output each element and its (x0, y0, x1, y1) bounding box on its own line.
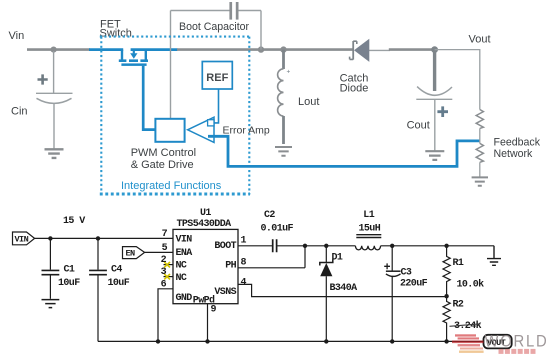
svg-text:5: 5 (162, 243, 168, 254)
svg-text:10uF: 10uF (58, 278, 80, 289)
wire: divider bottom (479, 162, 481, 176)
svg-text:C4: C4 (111, 265, 122, 276)
watermark stripe 5 (460, 348, 483, 350)
node: C4 junction (96, 236, 100, 240)
capacitor Cin lead bottom (53, 104, 55, 149)
wire: input rail (35, 237, 173, 239)
resistor feedback lower (476, 143, 483, 162)
wire: down to PH pin (304, 246, 306, 268)
svg-text:WORLD: WORLD (485, 331, 549, 350)
capacitor Cout lead (thick) (433, 50, 436, 91)
svg-text:10.0k: 10.0k (457, 279, 485, 291)
capacitor C4 lead top (97, 238, 99, 269)
node: Cout/Vout junction dot (431, 46, 438, 53)
svg-text:C2: C2 (264, 210, 275, 221)
node: pin6 rail junction (156, 339, 160, 343)
wire: Vin input (gray) (27, 48, 90, 51)
capacitor Cout plus sign (437, 106, 448, 117)
svg-text:Switch: Switch (100, 28, 132, 40)
wire: boot loop top left (171, 10, 231, 12)
svg-text:VIN: VIN (15, 235, 29, 245)
wire: switch node run to L1 (305, 245, 355, 247)
node: C3 junction (390, 244, 394, 248)
svg-text:Network: Network (494, 148, 534, 160)
port EN tag (123, 247, 145, 259)
node: boot/PH junction (303, 244, 307, 248)
svg-text:NC: NC (176, 261, 187, 272)
wire: Vout to feedback divider (435, 50, 480, 110)
capacitor C1 plates (42, 270, 60, 274)
capacitor C1 lead top (49, 238, 51, 269)
inductor Lout lead bottom (282, 116, 285, 144)
diode D1 triangle (320, 263, 332, 276)
capacitor Cin lead top (53, 51, 55, 93)
watermark chinese subtitle blocks (499, 349, 536, 354)
node: Cin junction dot (51, 47, 57, 53)
node: pin9 rail junction (205, 339, 209, 343)
pin 8 PH wire (238, 267, 305, 269)
no-connect X pin 3 (164, 274, 170, 279)
svg-text:2: 2 (161, 255, 167, 266)
svg-text:Cout: Cout (407, 120, 430, 132)
transistor FET (power switch) (119, 50, 148, 66)
wire: divider middle (479, 128, 481, 143)
capacitor Cout lead bottom (434, 99, 436, 150)
block REF (202, 62, 232, 90)
capacitor C3 lead to ground rail (391, 276, 393, 342)
resistor feedback upper (476, 110, 483, 129)
pin 4 VSNS wire to divider (238, 284, 447, 296)
wire: diode cathode thin stub (369, 49, 390, 51)
svg-text:6: 6 (161, 280, 167, 291)
svg-text:R2: R2 (453, 300, 464, 311)
capacitor C1 lead bottom (49, 275, 51, 299)
svg-text:Error Amp: Error Amp (223, 125, 270, 137)
wire: L1 to output node (381, 245, 494, 247)
svg-text:1: 1 (241, 235, 247, 246)
svg-text:8: 8 (241, 257, 247, 268)
watermark stripe 3 (452, 341, 484, 344)
svg-text:9: 9 (211, 305, 217, 316)
watermark stripe 2 (458, 337, 479, 339)
capacitor Cin top plate (36, 92, 73, 94)
wire: boot loop top right (238, 10, 261, 12)
node: R2 bottom junction (444, 339, 448, 343)
no-connect X pin 2 (164, 262, 170, 267)
svg-text:C3: C3 (401, 267, 412, 278)
capacitor Cout straight plate (416, 98, 452, 100)
node: D1 junction (324, 244, 328, 248)
svg-text:+: + (287, 69, 291, 76)
diode D1 lead to ground rail (325, 276, 327, 341)
capacitor C3 plus sign (384, 263, 390, 269)
svg-text:Feedback: Feedback (494, 137, 541, 149)
svg-text:REF: REF (206, 72, 228, 84)
capacitor C3 top plate (386, 270, 401, 272)
wire: switch node gray to Vout (389, 48, 435, 51)
capacitor Cin curved plate (37, 98, 72, 103)
port VOUT tag (484, 335, 512, 349)
svg-text:15 V: 15 V (63, 216, 85, 227)
svg-text:Lout: Lout (298, 96, 319, 108)
diode D1 lead top (325, 246, 327, 263)
svg-text:L1: L1 (363, 210, 374, 221)
capacitor C3 lead top (391, 246, 393, 271)
svg-text:Vin: Vin (9, 30, 25, 42)
watermark stripe 4 (458, 344, 480, 346)
resistor R2 (443, 296, 450, 341)
IC U1 TPS5430DDA body (173, 229, 238, 303)
wire: REF to error amp input (210, 89, 219, 123)
port VIN tag (13, 232, 35, 245)
svg-text:0.01uF: 0.01uF (261, 224, 294, 235)
svg-text:D1: D1 (332, 253, 343, 264)
node: boot cap junction dot (258, 46, 264, 52)
diode D1 schottky cathode bar (320, 260, 333, 266)
ground (output, top right) (487, 246, 501, 265)
svg-text:7: 7 (162, 229, 168, 240)
svg-text:EN: EN (126, 249, 136, 259)
svg-text:VSNS: VSNS (214, 287, 236, 298)
wire: ground rail (98, 340, 484, 342)
inductor Lout lead top (282, 50, 285, 69)
ground (C1) (42, 300, 60, 308)
wire: blue FET drain to box (ends x=177) (131, 48, 178, 51)
op-amp error amplifier (188, 117, 214, 142)
artifact: line through 3.24k (450, 324, 481, 327)
svg-text:Vout: Vout (469, 34, 491, 46)
input notch square on error amp (208, 120, 214, 126)
svg-text:Diode: Diode (340, 83, 369, 95)
svg-text:NC: NC (176, 273, 187, 284)
block PWM Control & Gate Drive (155, 119, 184, 142)
pin 6 GND stub to ground rail (158, 289, 173, 342)
svg-text:Cin: Cin (11, 106, 28, 118)
ground (Cin) (45, 149, 64, 158)
capacitor C3 curved plate (386, 274, 401, 277)
svg-text:TPS5430DDA: TPS5430DDA (177, 219, 232, 230)
svg-text:PWM Control: PWM Control (131, 147, 196, 159)
capacitor C4 lead to ground rail (97, 275, 99, 342)
svg-text:Boot Capacitor: Boot Capacitor (179, 21, 250, 33)
inductor L1 core bars (356, 235, 381, 238)
node: C3 rail junction (390, 339, 394, 343)
wire: gate lead to PWM block (143, 66, 155, 130)
ground (Cout) (425, 151, 444, 160)
svg-text:B340A: B340A (330, 283, 358, 294)
svg-text:R1: R1 (453, 258, 464, 269)
pin 1 BOOT wire (238, 245, 272, 247)
svg-text:3: 3 (161, 267, 167, 278)
wire: boot loop left vertical (to PWM) (170, 11, 172, 119)
wire: blue to FET source (89, 48, 123, 51)
watermark stripe 6 (459, 351, 484, 353)
svg-text:10uF: 10uF (108, 278, 130, 289)
wire: switch node gray main run (177, 48, 353, 51)
pin 3 stub (164, 276, 174, 278)
inductor Lout coil (278, 69, 284, 116)
capacitor Cout curved plate (417, 87, 452, 96)
pin 9 PwPd stub to ground rail (207, 304, 209, 342)
watermark stripe 1 (455, 334, 476, 336)
node: R1 junction (444, 244, 448, 248)
node: Lout junction dot (280, 46, 286, 52)
svg-text:BOOT: BOOT (214, 241, 236, 252)
svg-text:Integrated Functions: Integrated Functions (121, 180, 222, 192)
svg-text:4: 4 (241, 278, 247, 289)
wire: EN to pin 5 (145, 251, 173, 253)
pin 2 stub (164, 264, 174, 266)
node: D1 rail junction (324, 339, 328, 343)
inductor L1 coil (355, 246, 380, 250)
svg-text:U1: U1 (200, 208, 211, 219)
wire: C2 to switch node (277, 245, 305, 247)
wire: feedback path (thick blue) (208, 136, 480, 166)
svg-text:C1: C1 (64, 265, 75, 276)
svg-text:GND: GND (176, 293, 193, 304)
svg-text:VIN: VIN (176, 235, 193, 246)
box: Integrated Functions dotted border (100, 37, 250, 195)
capacitor boot plates (229, 2, 232, 20)
svg-text:& Gate Drive: & Gate Drive (131, 159, 194, 171)
svg-text:ENA: ENA (176, 248, 193, 259)
ground (Lout) (275, 147, 292, 156)
svg-text:PH: PH (225, 260, 236, 271)
node: C1 junction (48, 236, 52, 240)
resistor R1 (443, 246, 450, 296)
svg-text:220uF: 220uF (400, 278, 428, 289)
ground (feedback) (472, 177, 488, 185)
capacitor C4 plates (89, 270, 107, 274)
diode catch (schottky, top) (350, 39, 370, 62)
wire: boot loop right vertical to switch node (260, 11, 262, 50)
svg-text:15uH: 15uH (359, 224, 381, 235)
capacitor Cin plus sign (38, 74, 48, 84)
node: R1/R2 junction (444, 294, 448, 298)
capacitor C2 plates (273, 239, 277, 252)
